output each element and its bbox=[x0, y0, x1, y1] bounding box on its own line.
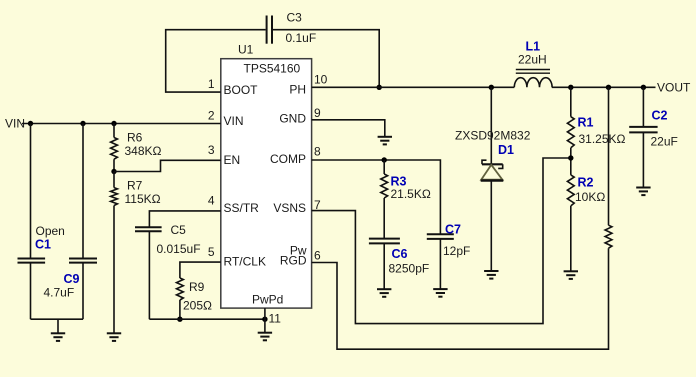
svg-text:GND: GND bbox=[279, 112, 306, 126]
svg-text:R2: R2 bbox=[578, 175, 594, 189]
pin 1 BOOT label bbox=[208, 77, 258, 97]
wire C5 lower stem bbox=[148, 231, 150, 319]
pin 2 VIN label bbox=[208, 109, 244, 129]
wire R2 bottom stem bbox=[570, 206, 572, 271]
ground D1 bbox=[484, 271, 498, 279]
pin 6 PwRGD label bbox=[280, 244, 321, 268]
svg-text:VIN: VIN bbox=[224, 114, 244, 128]
svg-text:12pF: 12pF bbox=[443, 244, 470, 258]
junction VOUT-R1 bbox=[568, 85, 573, 90]
capacitor C5 0.015uF bbox=[135, 223, 201, 256]
svg-text:22uH: 22uH bbox=[518, 53, 547, 67]
junction C3-PH bbox=[377, 85, 382, 90]
svg-text:348KΩ: 348KΩ bbox=[125, 144, 162, 158]
wire R6 bottom to EN node bbox=[113, 159, 115, 171]
svg-text:TPS54160: TPS54160 bbox=[244, 62, 301, 76]
svg-text:PwPd: PwPd bbox=[252, 292, 283, 306]
svg-text:4.7uF: 4.7uF bbox=[44, 286, 75, 300]
svg-text:22uF: 22uF bbox=[651, 135, 678, 149]
pin 9 GND label bbox=[279, 106, 321, 126]
svg-text:C6: C6 bbox=[392, 247, 408, 261]
ground R2 bbox=[564, 271, 578, 279]
diode D1 ZXSD92M832 schottky bbox=[455, 128, 531, 180]
wire C9 lower stem bbox=[82, 263, 84, 320]
ground C2 bbox=[636, 188, 650, 196]
junction PH-D1 bbox=[489, 85, 494, 90]
inductor L1 22uH bbox=[514, 39, 552, 87]
ground pin11 bbox=[258, 333, 272, 341]
junction feedback tap bbox=[568, 155, 573, 160]
svg-text:3: 3 bbox=[208, 143, 215, 157]
resistor R2 10K bbox=[567, 175, 605, 206]
wire C2 top stem bbox=[642, 87, 644, 126]
svg-text:115KΩ: 115KΩ bbox=[125, 192, 161, 206]
svg-text:C3: C3 bbox=[287, 11, 303, 25]
node VOUT terminal bbox=[657, 80, 691, 94]
wire C1 upper stem bbox=[30, 124, 32, 259]
wire R3 stems bbox=[383, 160, 385, 239]
junction VIN-C9 bbox=[80, 121, 85, 126]
wire VIN rail to pin 2 bbox=[22, 123, 221, 125]
svg-text:8250pF: 8250pF bbox=[389, 261, 430, 275]
wire pullup top stem bbox=[608, 87, 610, 225]
wire R7 stems bbox=[113, 172, 115, 334]
svg-text:L1: L1 bbox=[526, 39, 541, 53]
junction R9-bottom rail bbox=[177, 317, 182, 322]
svg-text:0.015uF: 0.015uF bbox=[157, 242, 201, 256]
svg-text:EN: EN bbox=[224, 153, 241, 167]
wire VSNS pin7 feedback loop bbox=[312, 158, 571, 324]
svg-text:C9: C9 bbox=[64, 272, 80, 286]
svg-text:9: 9 bbox=[314, 106, 321, 120]
junction VIN-R6 bbox=[111, 121, 116, 126]
wire SS/TR pin4 bbox=[149, 211, 220, 227]
pin 3 EN label bbox=[208, 143, 240, 167]
resistor R7 115K bbox=[111, 179, 161, 207]
svg-text:21.5KΩ: 21.5KΩ bbox=[391, 187, 431, 201]
wire R9 bottom stem bbox=[179, 300, 181, 319]
svg-text:2: 2 bbox=[208, 109, 215, 123]
svg-text:1: 1 bbox=[208, 77, 215, 91]
svg-text:D1: D1 bbox=[498, 143, 514, 157]
wire PH rail pin10 to L1 bbox=[312, 86, 515, 88]
svg-text:VSNS: VSNS bbox=[273, 201, 306, 215]
svg-text:C1: C1 bbox=[35, 238, 51, 252]
pin 10 PH label bbox=[289, 73, 327, 97]
svg-text:R9: R9 bbox=[189, 280, 205, 294]
svg-text:0.1uF: 0.1uF bbox=[286, 31, 317, 45]
junction VIN-C1 bbox=[28, 121, 33, 126]
wire bottom rail to pin11 bbox=[149, 318, 265, 320]
pin 7 VSNS label bbox=[273, 198, 321, 215]
svg-text:SS/TR: SS/TR bbox=[224, 201, 260, 215]
svg-text:Open: Open bbox=[36, 224, 65, 238]
wire RT/CLK pin5 bbox=[180, 262, 221, 278]
svg-text:U1: U1 bbox=[238, 43, 254, 57]
resistor R1 31.25K bbox=[567, 115, 625, 147]
junction pin11 bbox=[262, 317, 267, 322]
svg-text:31.25KΩ: 31.25KΩ bbox=[579, 132, 626, 146]
resistor R9 205ohm bbox=[177, 278, 213, 313]
svg-text:10: 10 bbox=[314, 73, 328, 87]
svg-text:RT/CLK: RT/CLK bbox=[224, 255, 266, 269]
svg-text:BOOT: BOOT bbox=[224, 83, 259, 97]
wire C2 lower stem bbox=[642, 133, 644, 188]
svg-text:R7: R7 bbox=[127, 179, 143, 193]
wire C6 lower stem bbox=[383, 244, 385, 290]
svg-text:COMP: COMP bbox=[270, 152, 306, 166]
junction VOUT-pullup bbox=[606, 85, 611, 90]
svg-text:205Ω: 205Ω bbox=[183, 299, 212, 313]
pin 11 PwPd label bbox=[252, 292, 283, 325]
wire R1-R2 link bbox=[570, 148, 572, 175]
wire VOUT rail bbox=[552, 86, 656, 88]
capacitor C9 4.7uF bbox=[44, 259, 98, 300]
capacitor C2 22uF bbox=[629, 109, 678, 149]
resistor R6 348K bbox=[111, 131, 162, 160]
wire C9 upper stem bbox=[82, 124, 84, 259]
svg-text:8: 8 bbox=[314, 145, 321, 159]
resistor pullup (unlabeled) bbox=[605, 225, 612, 248]
junction COMP-R3 bbox=[382, 157, 387, 162]
capacitor C1 (Open) bbox=[18, 224, 65, 263]
pin 4 SS/TR label bbox=[208, 194, 259, 216]
wire C3 to PH node bbox=[273, 30, 379, 88]
wire D1 cathode stem bbox=[490, 87, 492, 164]
svg-text:10KΩ: 10KΩ bbox=[575, 190, 605, 204]
svg-text:11: 11 bbox=[269, 312, 282, 326]
svg-text:PH: PH bbox=[289, 83, 306, 97]
node VIN terminal bbox=[5, 117, 25, 131]
wire R1 top stem bbox=[570, 87, 572, 116]
ground C7 bbox=[433, 289, 447, 297]
svg-text:R1: R1 bbox=[578, 115, 594, 129]
wire R6 top stem bbox=[113, 124, 115, 138]
ground pin9 bbox=[378, 137, 392, 145]
capacitor C3 0.1uF bbox=[267, 11, 317, 46]
wire PwRGD pin6 loop to pullup bbox=[312, 248, 609, 349]
ground input caps bbox=[51, 333, 65, 341]
wire C1-C9 bottom link bbox=[31, 319, 84, 333]
svg-text:RGD: RGD bbox=[280, 254, 307, 268]
svg-text:6: 6 bbox=[314, 249, 321, 263]
ground R7 bbox=[107, 333, 121, 341]
wire BOOT pin1 loop to C3 bbox=[166, 30, 266, 92]
svg-text:C7: C7 bbox=[445, 223, 461, 237]
capacitor C6 8250pF bbox=[369, 239, 429, 276]
svg-text:5: 5 bbox=[208, 245, 215, 259]
pin 5 RT/CLK label bbox=[208, 245, 266, 269]
junction R6-R7-EN bbox=[111, 169, 116, 174]
junction VOUT-C2 bbox=[641, 85, 646, 90]
svg-text:4: 4 bbox=[208, 194, 215, 208]
wire GND pin9 bbox=[312, 120, 385, 137]
capacitor C7 12pF bbox=[427, 223, 471, 259]
IC U1 TPS54160 body bbox=[221, 43, 312, 309]
resistor R3 21.5K bbox=[381, 174, 431, 201]
svg-text:ZXSD92M832: ZXSD92M832 bbox=[455, 128, 531, 142]
svg-text:R6: R6 bbox=[127, 131, 143, 145]
svg-text:C5: C5 bbox=[171, 223, 187, 237]
wire C7 lower stem bbox=[439, 239, 441, 289]
wire COMP pin8 net bbox=[312, 160, 441, 234]
wire D1 anode stem bbox=[490, 182, 492, 272]
pin 8 COMP label bbox=[270, 145, 321, 167]
svg-text:VOUT: VOUT bbox=[657, 80, 691, 94]
wire pin11 stem bbox=[264, 308, 266, 333]
wire C1 lower stem bbox=[30, 263, 32, 320]
svg-text:C2: C2 bbox=[652, 109, 668, 123]
wire EN net to pin 3 bbox=[114, 160, 221, 171]
ground C6 bbox=[377, 289, 391, 297]
